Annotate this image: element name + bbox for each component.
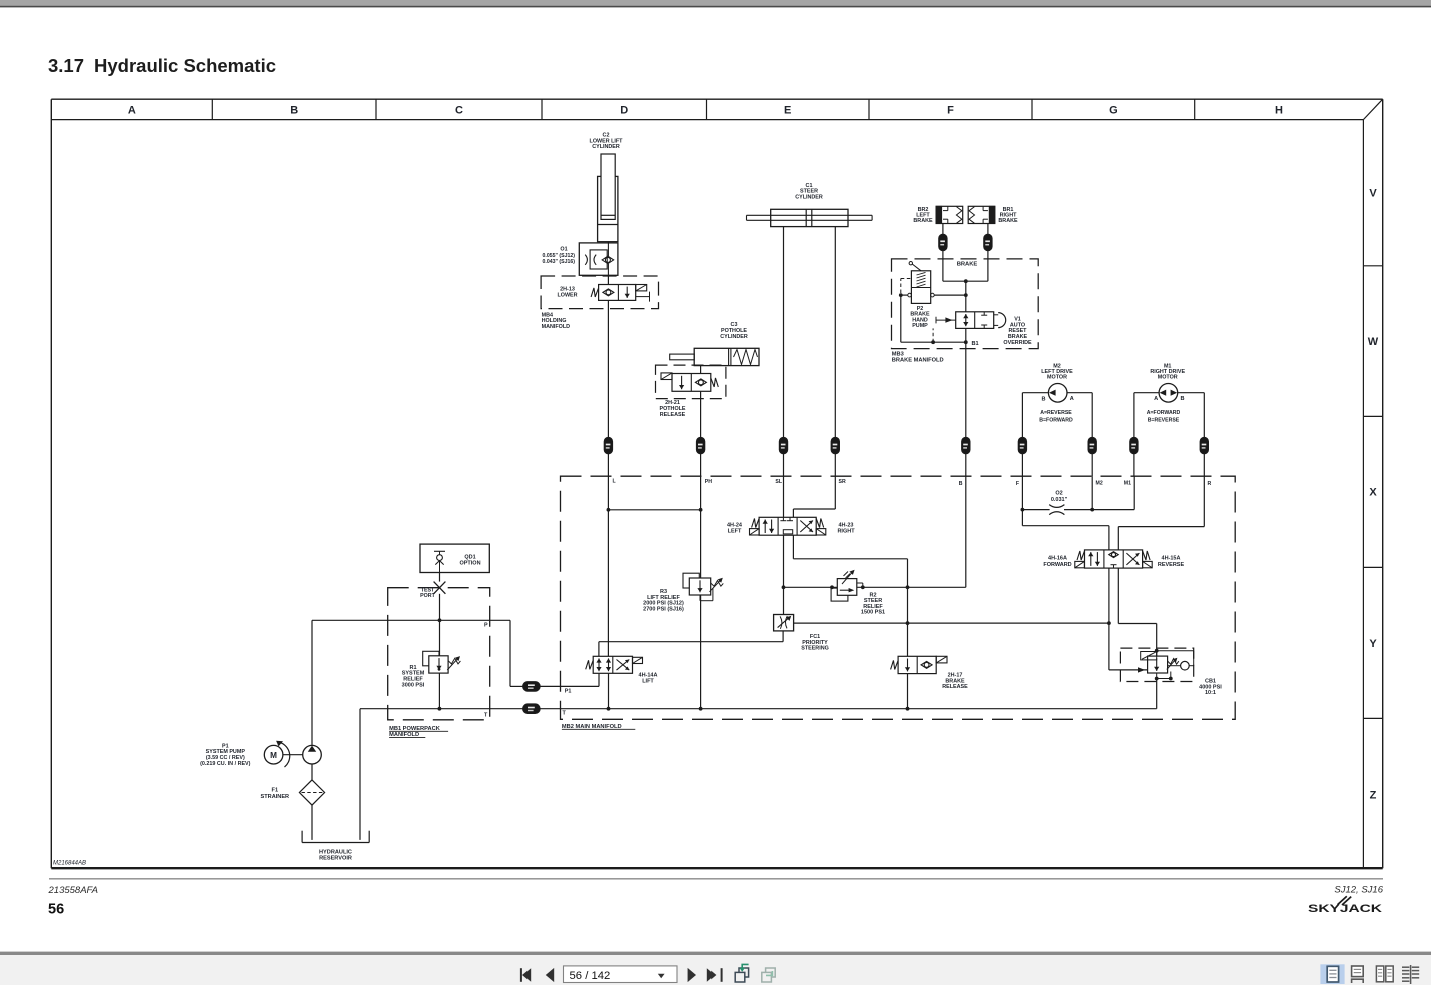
drive motor M1 <box>1134 384 1204 403</box>
wire BR1 down <box>987 224 989 235</box>
svg-text:4H-15A: 4H-15A <box>1162 556 1181 562</box>
quick disconnect T <box>523 704 541 714</box>
label O1 <box>543 247 576 266</box>
wire T line <box>438 707 1157 711</box>
svg-text:PH: PH <box>705 479 712 485</box>
svg-text:P1: P1 <box>565 688 572 694</box>
wire R line <box>1118 476 1204 550</box>
counterbalance valve CB1 <box>1141 651 1194 681</box>
hand pump P2 <box>908 262 934 304</box>
wire QD1 to test port <box>439 573 441 582</box>
wire strainer to tank <box>311 805 313 840</box>
label reservoir <box>319 850 352 862</box>
orifice O1 with check <box>579 243 618 275</box>
svg-text:RELEASE: RELEASE <box>660 412 686 418</box>
wire SL into manifold <box>783 454 785 476</box>
wire PH line in MB2 <box>699 476 703 578</box>
svg-text:HYDRAULIC: HYDRAULIC <box>319 850 352 856</box>
wire pump to strainer <box>311 764 313 780</box>
wire FC1 to CB1 line <box>794 621 1111 625</box>
svg-text:H: H <box>1275 105 1283 117</box>
label 4H-15A <box>1158 556 1185 568</box>
wire P node to R1 <box>439 620 441 656</box>
svg-text:B=FORWARD: B=FORWARD <box>1039 418 1073 424</box>
pilot line P2 dashed <box>901 279 912 294</box>
svg-text:BRAKE: BRAKE <box>913 218 933 224</box>
svg-text:M: M <box>270 751 277 760</box>
wire M2 line <box>1091 476 1093 509</box>
toolbar page number box <box>564 966 678 983</box>
label 2H-17 <box>942 672 968 690</box>
svg-text:O1: O1 <box>560 247 567 253</box>
wire BR2 to manifold <box>942 251 944 282</box>
label C1 <box>795 183 823 201</box>
wire test port to P node <box>438 594 442 622</box>
drawing border frame <box>51 99 1382 868</box>
svg-text:213558AFA: 213558AFA <box>48 885 98 896</box>
svg-text:CYLINDER: CYLINDER <box>720 334 748 340</box>
svg-text:F: F <box>947 105 954 117</box>
wire L line from 2H-13 <box>607 300 609 437</box>
svg-text:QD1: QD1 <box>464 554 475 560</box>
svg-text:FORWARD: FORWARD <box>1043 562 1071 568</box>
view two pages icon <box>1376 966 1393 982</box>
svg-text:W: W <box>1368 336 1379 348</box>
label R3 <box>643 589 684 613</box>
svg-text:X: X <box>1369 487 1377 499</box>
quick disconnect BR2 <box>939 234 947 251</box>
svg-text:STEERING: STEERING <box>801 646 829 652</box>
wire B into manifold <box>965 454 967 476</box>
strainer F1 <box>299 780 324 805</box>
browser top bar <box>0 0 1431 7</box>
svg-text:B=REVERSE: B=REVERSE <box>1148 418 1180 424</box>
svg-text:BRAKE MANIFOLD: BRAKE MANIFOLD <box>892 357 944 363</box>
valve 4H-14A lift <box>586 656 643 673</box>
label P port <box>484 622 488 628</box>
svg-text:A: A <box>1154 396 1158 402</box>
wire BR2 down <box>942 224 944 235</box>
label 4H-14A <box>639 673 658 685</box>
brake actuator BR2 <box>936 206 963 223</box>
wire F line <box>1021 476 1025 526</box>
wire R1 to T line <box>438 673 440 709</box>
svg-text:F1: F1 <box>272 788 279 794</box>
pump P1 with motor <box>264 741 321 767</box>
label BR2 <box>913 207 933 224</box>
wire M1-B down <box>1203 393 1205 438</box>
label M1 motor <box>1147 363 1186 423</box>
label C3 <box>720 322 748 340</box>
quick disconnect R <box>1200 437 1208 454</box>
wire F into manifold <box>1021 454 1023 476</box>
drawing number M216844AB <box>53 861 86 867</box>
quick disconnect BR1 <box>984 234 992 251</box>
flow control FC1 priority steering <box>774 615 794 631</box>
svg-text:CYLINDER: CYLINDER <box>592 144 620 150</box>
label R2 <box>861 592 885 615</box>
svg-text:10:1: 10:1 <box>1205 690 1216 696</box>
wire B node to 2H-17 <box>907 587 909 656</box>
label 2H-21 <box>659 400 685 418</box>
svg-text:A: A <box>128 105 136 117</box>
quick disconnect L <box>604 437 612 454</box>
svg-text:BRAKE: BRAKE <box>957 262 978 268</box>
svg-text:REVERSE: REVERSE <box>1158 562 1185 568</box>
label P1 port <box>565 688 572 694</box>
manifold MB1 boundary <box>388 588 490 720</box>
svg-text:LOWER: LOWER <box>557 293 577 299</box>
valve 2H-21 pothole release <box>661 373 718 391</box>
svg-text:56 / 142: 56 / 142 <box>570 970 611 982</box>
cylinder C3 pothole <box>670 348 759 365</box>
label T port MB1 <box>484 712 488 718</box>
label MB4 <box>542 312 571 329</box>
svg-text:V: V <box>1369 187 1377 199</box>
label MB2 <box>562 724 635 730</box>
view two page continuous icon <box>1402 965 1419 984</box>
manifold CB1 boundary <box>1120 648 1193 681</box>
svg-text:SR: SR <box>839 479 846 485</box>
valve 4H-24 4H-23 steering <box>750 517 826 535</box>
wire V1 to B1 <box>965 328 967 342</box>
svg-text:3.17Hydraulic Schematic: 3.17Hydraulic Schematic <box>48 55 276 76</box>
quick disconnect P1 <box>523 682 541 692</box>
svg-text:G: G <box>1109 105 1118 117</box>
wire valve B return <box>793 535 907 587</box>
label 4H-16A <box>1043 556 1071 568</box>
svg-text:(0.219 CU. IN / REV): (0.219 CU. IN / REV) <box>200 761 251 767</box>
wire CB1 to T line <box>1156 679 1158 709</box>
manifold 2H-21 boundary <box>656 365 726 399</box>
svg-text:PORT: PORT <box>420 593 435 599</box>
wire steer node to R2 to B node <box>784 585 910 589</box>
svg-text:0.055" (SJ12): 0.055" (SJ12) <box>543 253 576 259</box>
drive motor M2 <box>1022 384 1092 403</box>
view continuous scroll icon <box>1352 966 1364 983</box>
footer doc code 213558AFA <box>48 885 98 896</box>
svg-text:C: C <box>455 105 463 117</box>
pilot line V1 dashed <box>932 328 934 342</box>
svg-text:MANIFOLD: MANIFOLD <box>542 324 571 330</box>
svg-text:MOTOR: MOTOR <box>1047 374 1067 380</box>
svg-text:1500 PS1: 1500 PS1 <box>861 610 885 616</box>
wire M2 into manifold <box>1091 454 1093 476</box>
label 4H-24 <box>727 523 743 535</box>
quick disconnect F <box>1018 437 1026 454</box>
wire 4H-14A to T <box>608 673 610 708</box>
svg-text:M2: M2 <box>1096 481 1103 487</box>
wire M2-A down <box>1091 393 1093 438</box>
svg-text:B: B <box>959 481 963 487</box>
wire pilot to CB1 <box>1109 667 1148 672</box>
label MB3 <box>892 351 944 363</box>
wire brake node to P2 line <box>964 281 968 312</box>
footer model SJ12, SJ16 <box>1334 885 1383 896</box>
svg-text:R: R <box>1208 481 1212 487</box>
svg-text:A=REVERSE: A=REVERSE <box>1040 410 1072 416</box>
relief valve R3 <box>683 573 723 601</box>
wire 4H-14A P port <box>561 673 600 686</box>
svg-text:A: A <box>1070 396 1074 402</box>
label M2 motor <box>1039 363 1074 423</box>
valve 4H-16A 4H-15A drive <box>1075 550 1152 568</box>
toolbar first page button <box>520 968 531 982</box>
wire F to valve <box>1022 526 1109 550</box>
svg-text:B: B <box>290 105 298 117</box>
wire P1 QD to MB2 <box>540 685 560 687</box>
wire SR from C1 <box>834 227 836 438</box>
page title <box>48 55 276 76</box>
wire SR jog <box>793 476 835 517</box>
quick disconnect M2 <box>1088 437 1096 454</box>
svg-text:Z: Z <box>1370 790 1377 802</box>
wire P2 to brake node <box>934 294 966 296</box>
svg-text:STRAINER: STRAINER <box>261 794 290 800</box>
orifice O2 <box>1049 505 1064 515</box>
label 4H-23 <box>837 523 855 535</box>
wire P drop <box>510 620 523 686</box>
wire PH line from 2H-21 <box>700 391 702 437</box>
toolbar refresh-page icon <box>735 964 748 982</box>
test coupling QD1 option <box>420 544 489 572</box>
valve 2H-13 lower <box>591 285 649 302</box>
svg-text:P: P <box>484 622 488 628</box>
view single page icon (active) <box>1320 964 1344 984</box>
label node B1 <box>972 341 979 347</box>
label F1 <box>261 788 290 800</box>
wire L-PH connector <box>608 509 700 511</box>
wire BR1 to manifold <box>987 251 989 282</box>
label P1 pump <box>200 743 251 766</box>
wire O2 line <box>1022 508 1134 512</box>
label BR1 <box>998 207 1018 224</box>
svg-text:2700 PSI (SJ16): 2700 PSI (SJ16) <box>643 607 684 613</box>
wire pump to P line <box>311 620 313 745</box>
cylinder C2 lower lift <box>598 154 618 242</box>
svg-text:O2: O2 <box>1055 490 1062 496</box>
svg-text:SJ12, SJ16: SJ12, SJ16 <box>1334 885 1383 896</box>
toolbar next page button <box>688 968 696 982</box>
footer page number 56 <box>48 902 64 918</box>
svg-text:E: E <box>784 105 791 117</box>
wire R3 to T line <box>700 595 702 709</box>
valve V1 auto reset brake override <box>936 312 1006 329</box>
brake actuator BR1 <box>968 206 995 223</box>
svg-text:B1: B1 <box>972 341 979 347</box>
svg-text:3000 PSI: 3000 PSI <box>402 682 425 688</box>
footer rule <box>49 878 1383 880</box>
svg-text:RIGHT: RIGHT <box>837 529 855 535</box>
wire O1 to 2H-13 <box>607 275 609 284</box>
valve 2H-17 brake release <box>891 656 947 673</box>
grid row labels <box>1368 187 1379 801</box>
wire SL from C1 <box>783 227 785 438</box>
label FC1 <box>801 634 829 652</box>
label 2H-13 <box>557 287 577 299</box>
label MB1 <box>389 726 448 738</box>
svg-text:B: B <box>1180 396 1184 402</box>
wire P2 suction down <box>900 295 902 342</box>
svg-text:B: B <box>1041 397 1045 403</box>
toolbar last page button <box>707 968 723 982</box>
svg-text:MB3: MB3 <box>892 351 904 357</box>
svg-text:OVERRIDE: OVERRIDE <box>1003 340 1032 346</box>
wire T line west <box>360 708 561 710</box>
quick disconnect SR <box>831 437 839 454</box>
svg-text:Y: Y <box>1369 638 1377 650</box>
wire P2 left port <box>899 293 908 297</box>
wire M2-B down <box>1021 393 1023 438</box>
wire B port down <box>908 476 966 587</box>
wire R into manifold <box>1203 454 1205 476</box>
wire bottom B1 header <box>901 340 968 344</box>
svg-text:F: F <box>1016 481 1019 487</box>
wire lift feed horizontal <box>599 641 783 643</box>
svg-text:SL: SL <box>775 479 782 485</box>
svg-text:4H-16A: 4H-16A <box>1048 556 1067 562</box>
wire lift feed to valve <box>598 642 600 657</box>
wire SL to valve <box>783 476 785 517</box>
label T port MB2 <box>563 710 567 716</box>
relief valve R1 <box>423 651 461 673</box>
wire C2 to O1 <box>607 242 609 243</box>
label QD1 <box>459 554 480 566</box>
grid column labels <box>128 105 1283 117</box>
hydraulic reservoir <box>302 831 369 843</box>
svg-text:BRAKE: BRAKE <box>998 218 1018 224</box>
svg-text:PUMP: PUMP <box>912 323 928 329</box>
svg-text:MOTOR: MOTOR <box>1158 374 1178 380</box>
svg-text:56: 56 <box>48 902 64 918</box>
wire M1 into manifold <box>1133 454 1135 476</box>
svg-text:D: D <box>620 105 628 117</box>
svg-text:RESERVOIR: RESERVOIR <box>319 856 352 862</box>
wire C3 to 2H-21 <box>700 366 702 374</box>
svg-text:0.031": 0.031" <box>1051 497 1068 503</box>
label TEST PORT <box>420 587 435 599</box>
wire B line <box>965 342 967 437</box>
wire M1 line <box>1133 476 1135 509</box>
wire valve B down <box>1118 568 1158 656</box>
wire valve A down <box>1108 568 1110 670</box>
svg-text:A=FORWARD: A=FORWARD <box>1147 410 1181 416</box>
wire M1-A down <box>1133 393 1135 438</box>
svg-text:SKYJACK: SKYJACK <box>1308 903 1382 915</box>
quick disconnect B <box>962 437 970 454</box>
wire T return to tank <box>359 709 361 840</box>
quick disconnect PH <box>696 437 704 454</box>
wire FC1 out <box>782 631 784 642</box>
wire P line <box>312 619 510 621</box>
label MB2 ports <box>613 479 1212 487</box>
label P2 <box>910 306 930 329</box>
svg-text:LEFT: LEFT <box>728 529 742 535</box>
wire brake header <box>943 279 988 283</box>
test port X <box>434 582 446 594</box>
wire 2H-17 to T line <box>906 674 910 711</box>
svg-text:CYLINDER: CYLINDER <box>795 194 823 200</box>
wire L into manifold <box>607 454 609 476</box>
svg-text:OPTION: OPTION <box>459 561 480 567</box>
label O2 <box>1051 490 1068 503</box>
quick disconnect SL <box>779 437 787 454</box>
svg-text:M216844AB: M216844AB <box>53 861 86 867</box>
svg-text:RELEASE: RELEASE <box>942 684 968 690</box>
wire valve to steer node <box>782 535 786 614</box>
toolbar previous page button <box>546 968 554 982</box>
manifold MB4 boundary <box>541 276 658 309</box>
svg-text:LIFT: LIFT <box>642 679 654 685</box>
wire PH into manifold <box>700 454 702 476</box>
label R1 <box>402 665 425 688</box>
wire SR into manifold <box>834 454 836 476</box>
manifold MB3 boundary <box>892 259 1039 349</box>
label CB1 <box>1199 678 1222 696</box>
label BRAKE <box>950 260 984 268</box>
svg-text:0.043" (SJ16): 0.043" (SJ16) <box>543 259 576 265</box>
SKYJACK logo <box>1308 896 1382 915</box>
toolbar duplicate-page icon (disabled) <box>762 968 775 982</box>
quick disconnect M1 <box>1130 437 1138 454</box>
relief valve R2 <box>831 570 863 601</box>
label C2 <box>590 133 624 150</box>
label V1 <box>1003 317 1032 346</box>
wire L line in MB2 <box>607 476 611 656</box>
manifold MB2 boundary <box>561 476 1236 719</box>
cylinder C1 steer <box>747 209 873 226</box>
toolbar background <box>0 952 1431 985</box>
svg-text:M1: M1 <box>1124 481 1131 487</box>
